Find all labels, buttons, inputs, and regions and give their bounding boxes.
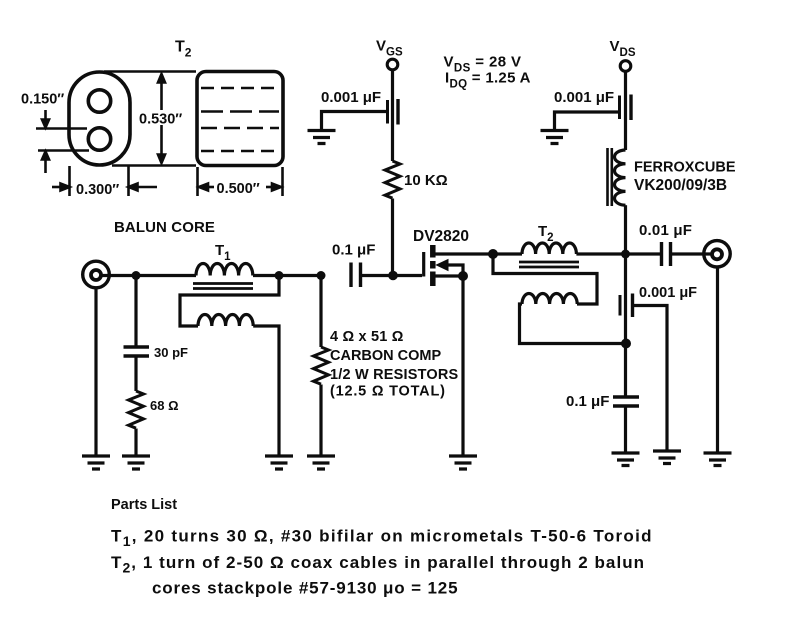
resistor 68 ohm bbox=[129, 391, 144, 428]
svg-text:T1: T1 bbox=[215, 242, 231, 263]
label 0.300'' bbox=[76, 182, 120, 198]
svg-text:0.001 μF: 0.001 μF bbox=[554, 89, 614, 106]
svg-text:T2, 1 turn of 2-50 Ω coax cabl: T2, 1 turn of 2-50 Ω coax cables in para… bbox=[111, 553, 645, 576]
dimension 0.150 arrow (lower, pointing up) bbox=[44, 155, 47, 173]
label BALUN CORE bbox=[114, 219, 215, 236]
wire: T2 secondary left to node F bbox=[520, 304, 627, 344]
capacitor 0.001 uF (drain bypass) bbox=[639, 285, 697, 301]
ground (T1 secondary) bbox=[265, 456, 293, 469]
label VDS bbox=[610, 38, 636, 59]
transformer T2 primary winding bbox=[522, 243, 576, 254]
svg-text:0.300′′: 0.300′′ bbox=[76, 182, 120, 198]
wire: VDS bypass to ground bbox=[555, 112, 619, 130]
wire: drain bypass to ground bbox=[633, 306, 668, 452]
ground (68 ohm) bbox=[122, 456, 150, 469]
body arrow bbox=[447, 265, 463, 276]
svg-text:cores stackpole #57-9130 μo =: cores stackpole #57-9130 μo = 125 bbox=[152, 579, 458, 598]
dimension 0.500 extension lines bbox=[198, 167, 283, 196]
dimension 0.150 arrow (upper, pointing down) bbox=[44, 110, 47, 126]
output connector J2 bbox=[704, 241, 730, 267]
svg-text:(12.5 Ω TOTAL): (12.5 Ω TOTAL) bbox=[330, 384, 446, 400]
wire: node C down to resistor network bbox=[319, 276, 322, 348]
wire: bypass cap to ground bbox=[322, 112, 387, 131]
wire: VDS down to choke bbox=[624, 72, 627, 150]
wire: 0.1uF to gate node bbox=[361, 274, 423, 277]
capacitor 0.001 uF (VGS bypass) bbox=[321, 89, 381, 106]
label T1 bbox=[215, 242, 231, 263]
choke L1 FERROXCUBE winding bbox=[615, 150, 626, 205]
wire: node A down to 30pF bbox=[134, 276, 137, 348]
channel segments bbox=[430, 245, 436, 258]
wire: drain bbox=[435, 252, 494, 255]
dimension 0.150 leader lines bbox=[36, 110, 89, 173]
wire: 68 ohm to ground bbox=[134, 429, 137, 457]
svg-text:0.500′′: 0.500′′ bbox=[217, 181, 261, 197]
lamination dashed line 4 bbox=[201, 150, 279, 153]
wire: source bbox=[435, 274, 463, 277]
wire: drain node to T2 bbox=[493, 252, 522, 255]
label VGS bbox=[376, 38, 403, 59]
svg-text:VK200/09/3B: VK200/09/3B bbox=[634, 177, 727, 194]
node D gate junction dot bbox=[388, 271, 398, 281]
wire: 30pF to 68 ohm resistor bbox=[134, 356, 137, 391]
dimension 0.530 vertical arrow bbox=[158, 74, 165, 163]
wire: T1 primary to node B bbox=[253, 274, 322, 277]
svg-text:0.530′′: 0.530′′ bbox=[139, 112, 183, 128]
ground (0.1uF) bbox=[612, 453, 640, 466]
svg-text:4 Ω x 51 Ω: 4 Ω x 51 Ω bbox=[330, 329, 404, 345]
node G (junction dot at VDS/drain line) bbox=[621, 250, 630, 259]
svg-text:VGS: VGS bbox=[376, 38, 403, 59]
svg-text:0.150′′: 0.150′′ bbox=[21, 92, 65, 108]
capacitor 0.1 uF (drain RC) bbox=[566, 393, 609, 410]
terminal VGS bbox=[387, 59, 398, 70]
ground (resistor network) bbox=[307, 456, 335, 469]
terminal VDS bbox=[620, 61, 631, 72]
svg-text:Parts List: Parts List bbox=[111, 497, 177, 513]
svg-text:DV2820: DV2820 bbox=[413, 228, 469, 245]
label 0.150'' bbox=[21, 92, 65, 108]
parts list bbox=[111, 497, 653, 598]
ground (input connector) bbox=[82, 456, 110, 469]
wire: choke to drain line bbox=[624, 205, 627, 254]
gate bar bbox=[422, 252, 425, 277]
ground (VDS bypass) bbox=[541, 131, 569, 144]
label VDS = 28 V bbox=[444, 54, 531, 91]
svg-text:CARBON COMP: CARBON COMP bbox=[330, 348, 441, 364]
svg-text:68 Ω: 68 Ω bbox=[150, 398, 179, 413]
lamination dashed line 2 bbox=[201, 110, 279, 113]
dimension 0.500 arrows (inside, pointing outward) bbox=[199, 184, 208, 191]
wire: 10K to gate node bbox=[391, 199, 394, 276]
svg-text:0.1 μF: 0.1 μF bbox=[566, 393, 609, 410]
node C (junction dot) bbox=[317, 271, 326, 280]
transformer T1 primary winding bbox=[196, 264, 253, 276]
dimension 0.300 extension lines bbox=[52, 166, 157, 196]
svg-text:T1, 20 turns 30 Ω, #30 bifilar: T1, 20 turns 30 Ω, #30 bifilar on microm… bbox=[111, 527, 653, 550]
capacitor 30 pF bbox=[124, 347, 150, 356]
transformer T2 core bbox=[519, 262, 579, 267]
dimension extension line (top, to side view) bbox=[104, 70, 196, 73]
capacitor 0.01 uF (output coupling) bbox=[639, 222, 692, 239]
wire: T1 secondary loop bbox=[180, 276, 279, 327]
label DV2820 bbox=[413, 228, 469, 245]
svg-text:0.01 μF: 0.01 μF bbox=[639, 222, 692, 239]
balun core hole (bottom) bbox=[88, 128, 110, 150]
wire: VGS terminal down bbox=[391, 71, 394, 161]
svg-text:1/2 W RESISTORS: 1/2 W RESISTORS bbox=[330, 367, 459, 383]
ground (VGS bypass) bbox=[308, 131, 336, 144]
wire: T1 secondary to ground bbox=[253, 326, 279, 456]
wire: T2 secondary loop bbox=[493, 254, 597, 304]
node F (junction dot) bbox=[621, 339, 631, 349]
svg-text:FERROXCUBE: FERROXCUBE bbox=[634, 160, 736, 176]
svg-text:0.001 μF: 0.001 μF bbox=[321, 89, 381, 106]
wire: VDS line down through caps bbox=[624, 254, 627, 397]
capacitor 0.1 uF (input coupling) bbox=[332, 242, 375, 259]
svg-text:VDS: VDS bbox=[610, 38, 636, 59]
wire: output connector to ground bbox=[716, 269, 719, 454]
wire: resistor network to ground bbox=[319, 385, 322, 457]
balun core front view (stadium with two holes) bbox=[69, 72, 130, 165]
dimension extension line (bottom, to side view) bbox=[112, 164, 196, 167]
transformer T1 secondary winding bbox=[198, 315, 253, 327]
node B (junction dot) bbox=[275, 271, 284, 280]
node A (junction dot) bbox=[132, 271, 141, 280]
svg-text:30 pF: 30 pF bbox=[154, 345, 188, 360]
wire: connector ground stub bbox=[94, 288, 97, 456]
label T2 (circuit) bbox=[538, 223, 554, 244]
transformer T2 secondary winding bbox=[522, 294, 577, 305]
label 0.500'' bbox=[217, 181, 261, 197]
ground (source) bbox=[449, 456, 477, 469]
balun core hole (top) bbox=[88, 90, 110, 112]
transformer T1 core bbox=[193, 284, 253, 289]
svg-text:BALUN CORE: BALUN CORE bbox=[114, 219, 215, 236]
lamination dashed line 3 bbox=[201, 127, 279, 130]
resistor 10 Kohm bbox=[385, 161, 400, 198]
svg-text:T2: T2 bbox=[175, 39, 192, 60]
input connector J1 bbox=[83, 261, 110, 288]
balun core side view (rect with dashed lamination lines) bbox=[197, 72, 283, 166]
lamination dashed line 1 bbox=[201, 87, 279, 90]
svg-text:0.1 μF: 0.1 μF bbox=[332, 242, 375, 259]
resistor network 4x51 ohm bbox=[314, 347, 329, 384]
ground (output connector) bbox=[704, 453, 732, 466]
wire: connector to node A bbox=[100, 274, 196, 277]
transistor Q1 DV2820 (MOSFET) bbox=[424, 245, 433, 286]
svg-text:0.001 μF: 0.001 μF bbox=[639, 285, 697, 301]
capacitor 0.001 uF (VDS bypass) bbox=[554, 89, 614, 106]
wire: 0.1uF to ground bbox=[624, 406, 627, 453]
wire: source to ground bbox=[461, 276, 464, 456]
svg-text:T2: T2 bbox=[538, 223, 554, 244]
ground (drain bypass) bbox=[653, 451, 681, 464]
node E (drain junction dot) bbox=[488, 249, 498, 259]
node S (source junction dot) bbox=[458, 271, 468, 281]
choke core bars bbox=[608, 148, 612, 206]
wire: 0.01uF to output connector bbox=[671, 252, 714, 255]
svg-text:10 KΩ: 10 KΩ bbox=[404, 172, 448, 189]
label T2 (balun core drawing) bbox=[175, 39, 192, 60]
label 0.530'' bbox=[138, 110, 186, 128]
wire: T2 primary to VDS line bbox=[576, 252, 661, 255]
dimension 0.300 arrows (outside, pointing inward) bbox=[52, 186, 68, 189]
